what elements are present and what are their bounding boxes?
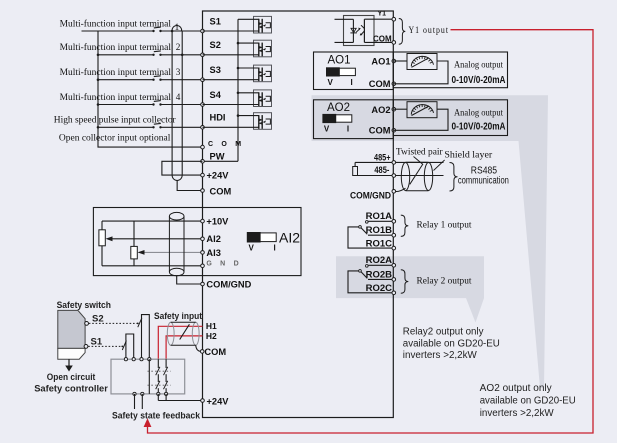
terminal +10V bbox=[201, 219, 205, 223]
svg-text:COM/GND: COM/GND bbox=[350, 191, 391, 201]
potentiometer divider verticals bbox=[101, 221, 103, 266]
svg-text:Multi-function input terminal: Multi-function input terminal bbox=[60, 92, 172, 102]
wire + switch contact for S1 bbox=[82, 30, 154, 32]
terminal COM/GND (485) bbox=[392, 190, 396, 194]
wire + switch contact for S4 bbox=[98, 104, 154, 106]
svg-text:communication: communication bbox=[458, 176, 509, 187]
wire controller to +24V bbox=[158, 394, 202, 401]
terminal COM (AO2) bbox=[392, 129, 396, 133]
wire + switch contact for HDI bbox=[98, 126, 154, 128]
terminal COM (2nd) bbox=[201, 189, 205, 193]
terminal AI2 bbox=[201, 237, 205, 241]
svg-text:485-: 485- bbox=[374, 165, 389, 176]
svg-text:Analog output: Analog output bbox=[454, 109, 503, 119]
terminal RO1C bbox=[392, 246, 396, 250]
terminal COM (digital) bbox=[201, 145, 205, 149]
terminal S1 bbox=[201, 29, 205, 33]
svg-text:Y1 output: Y1 output bbox=[409, 26, 450, 36]
optocoupler S1 bbox=[203, 16, 272, 33]
terminal AO2 bbox=[392, 107, 396, 111]
svg-text:PW: PW bbox=[210, 152, 225, 162]
contact arm S2 bbox=[137, 323, 139, 325]
shield capsule RS485 bbox=[401, 162, 432, 191]
pot rail +10V wire bbox=[102, 220, 203, 222]
terminal COM (safety) bbox=[200, 350, 204, 354]
wire AO2 to meter bbox=[394, 108, 407, 110]
svg-text:S1: S1 bbox=[91, 336, 103, 347]
svg-text:High speed pulse input collect: High speed pulse input collector bbox=[54, 115, 176, 125]
junction opto bus S4 bbox=[237, 92, 240, 95]
svg-text:COM: COM bbox=[369, 79, 391, 89]
terminal HDI bbox=[201, 126, 205, 130]
svg-text:Open circuit: Open circuit bbox=[47, 372, 96, 383]
potentiometer P1 bbox=[99, 230, 105, 246]
terminal 485- bbox=[392, 174, 396, 178]
V/I switch AI2 bbox=[260, 233, 276, 242]
svg-text:Y1: Y1 bbox=[378, 11, 387, 18]
svg-text:AO2 output only: AO2 output only bbox=[480, 383, 552, 394]
terminal S2 (switch) bbox=[85, 322, 89, 326]
wire loop S1 to controller bbox=[126, 334, 134, 359]
terminal S3 bbox=[201, 78, 205, 82]
svg-text:4: 4 bbox=[176, 92, 181, 102]
svg-text:AI3: AI3 bbox=[206, 248, 220, 258]
terminal +24V (safety) bbox=[201, 399, 205, 403]
svg-text:Safety input: Safety input bbox=[154, 311, 203, 322]
svg-text:COM/GND: COM/GND bbox=[206, 280, 251, 290]
terminal GND bbox=[201, 264, 205, 268]
terminal S2 bbox=[201, 53, 205, 57]
svg-text:COM: COM bbox=[369, 126, 391, 136]
svg-text:Open collector input optional: Open collector input optional bbox=[59, 133, 171, 143]
terminal AO1 bbox=[392, 59, 396, 63]
svg-text:Analog output: Analog output bbox=[454, 60, 503, 70]
wiper arrow AI3 bbox=[138, 250, 145, 255]
optocoupler S4 bbox=[203, 90, 272, 107]
svg-text:S1: S1 bbox=[210, 16, 221, 26]
svg-text:AO1: AO1 bbox=[327, 54, 350, 66]
junction opto bus HDI bbox=[237, 114, 240, 117]
svg-text:RO2C: RO2C bbox=[366, 283, 393, 294]
analog output box AO1 bbox=[393, 52, 507, 88]
terminal RO2A bbox=[392, 264, 396, 268]
svg-text:COM: COM bbox=[210, 186, 232, 196]
svg-text:G N D: G N D bbox=[206, 260, 241, 267]
controller contacts bbox=[157, 359, 159, 368]
wire COM of opto bbox=[364, 41, 393, 43]
svg-text:+24V: +24V bbox=[207, 171, 230, 181]
shield capsule analog input bbox=[169, 212, 184, 275]
wire H1 (red) bbox=[158, 326, 202, 359]
svg-text:AI2: AI2 bbox=[279, 229, 300, 245]
svg-text:H1: H1 bbox=[206, 321, 217, 331]
terminal RO2B bbox=[392, 278, 396, 282]
wire 485- bbox=[355, 175, 443, 177]
svg-text:0-10V/0-20mA: 0-10V/0-20mA bbox=[452, 75, 506, 86]
svg-text:0-10V/0-20mA: 0-10V/0-20mA bbox=[452, 121, 506, 132]
svg-text:S4: S4 bbox=[210, 90, 222, 100]
terminal RO1B bbox=[392, 233, 396, 237]
svg-text:RO1B: RO1B bbox=[366, 225, 393, 236]
wire 485+ bbox=[355, 161, 443, 163]
svg-text:2: 2 bbox=[176, 42, 181, 52]
svg-text:Safety switch: Safety switch bbox=[57, 300, 112, 311]
wire meter to COM (AO1) bbox=[394, 61, 448, 84]
safety switch body bbox=[58, 310, 85, 359]
svg-text:AO2: AO2 bbox=[371, 105, 390, 115]
shield capsule safety input bbox=[167, 322, 199, 345]
pot rail GND wire bbox=[102, 265, 203, 267]
wiper arrow AI2 bbox=[106, 236, 113, 241]
svg-text:S3: S3 bbox=[210, 65, 221, 75]
wire shield to COM/GND bbox=[177, 276, 203, 284]
svg-text:V: V bbox=[328, 78, 334, 87]
leader shield layer bbox=[434, 160, 445, 171]
optocoupler S2 bbox=[203, 40, 272, 57]
wire Y1 to terminal bbox=[364, 18, 393, 20]
wire meter to COM (AO2) bbox=[394, 109, 448, 130]
wire AO1 to meter bbox=[394, 60, 407, 62]
junction opto bus S3 bbox=[237, 67, 240, 70]
controller terminals bottom bbox=[133, 392, 136, 395]
svg-text:RO1C: RO1C bbox=[366, 238, 393, 249]
svg-text:Relay 1 output: Relay 1 output bbox=[417, 220, 473, 230]
contact arm S1 bbox=[121, 346, 123, 348]
svg-text:HDI: HDI bbox=[210, 113, 226, 123]
terminal 485+ bbox=[392, 161, 396, 165]
svg-text:AI2: AI2 bbox=[206, 234, 220, 244]
terminal S4 bbox=[201, 103, 205, 107]
svg-text:+10V: +10V bbox=[206, 217, 229, 227]
terminal S1 (switch) bbox=[84, 345, 88, 349]
controller terminals top bbox=[124, 358, 127, 361]
AO1 selector box bbox=[314, 52, 394, 90]
svg-text:Multi-function input terminal: Multi-function input terminal bbox=[60, 67, 172, 77]
brace relay 2 output bbox=[401, 270, 409, 293]
meter M2 bbox=[407, 102, 437, 118]
wire H2 (red) bbox=[166, 336, 202, 359]
svg-text:C O M: C O M bbox=[208, 141, 244, 148]
terminal RO1A bbox=[392, 220, 396, 224]
svg-text:Twisted pair: Twisted pair bbox=[396, 147, 443, 157]
junction opto bus S2 bbox=[237, 42, 240, 45]
svg-text:I: I bbox=[347, 124, 349, 133]
svg-text:AO2: AO2 bbox=[327, 102, 350, 114]
svg-text:inverters >2,2kW: inverters >2,2kW bbox=[480, 408, 555, 419]
svg-text:Relay 2 output: Relay 2 output bbox=[417, 275, 473, 285]
svg-text:V: V bbox=[249, 243, 255, 252]
svg-text:1: 1 bbox=[175, 22, 180, 32]
dotted wire S1 bbox=[88, 345, 122, 347]
opto bus vertical wire bbox=[237, 19, 239, 161]
svg-text:Multi-function input terminal: Multi-function input terminal bbox=[60, 18, 172, 28]
terminal +24V bbox=[201, 173, 205, 177]
svg-text:available on GD20-EU: available on GD20-EU bbox=[403, 338, 500, 349]
brace RS485 bbox=[450, 163, 458, 192]
dotted wire S2 bbox=[89, 322, 138, 324]
potentiometer P2 bbox=[131, 246, 138, 259]
V/I switch AO1 bbox=[339, 68, 355, 75]
svg-text:RO1A: RO1A bbox=[366, 211, 393, 222]
safety state feedback stubs bbox=[134, 394, 136, 409]
leader twisted pair bbox=[414, 157, 424, 165]
AO2 selector box bbox=[314, 100, 394, 139]
wire + switch contact for S3 bbox=[98, 79, 154, 81]
controller internal wire bbox=[148, 359, 150, 394]
svg-text:I: I bbox=[274, 243, 276, 252]
external wire A from input 1 to +24V bbox=[171, 31, 173, 175]
svg-text:RO2A: RO2A bbox=[366, 255, 393, 266]
svg-text:available on GD20-EU: available on GD20-EU bbox=[480, 396, 576, 407]
svg-text:S2: S2 bbox=[210, 40, 221, 50]
red wire from Y1 output to safety feedback bbox=[148, 30, 594, 433]
svg-text:Shield layer: Shield layer bbox=[444, 150, 492, 160]
wire COM/GND to shield bbox=[394, 188, 406, 191]
external wire B from input 2 bbox=[181, 31, 183, 175]
svg-text:V: V bbox=[324, 124, 330, 133]
V/I switch AO2 bbox=[335, 115, 351, 122]
analog input box bbox=[93, 208, 301, 276]
main inverter block outline bbox=[203, 11, 394, 418]
contact coupling dashes bbox=[148, 370, 171, 372]
terminal PW + internal wire to opto bus bbox=[203, 160, 239, 162]
svg-text:S2: S2 bbox=[92, 313, 104, 324]
brace Y1 output bbox=[399, 19, 406, 45]
svg-text:Safety controller: Safety controller bbox=[34, 384, 108, 395]
terminal Y1 bbox=[392, 17, 396, 21]
terminal COM/GND (analog) bbox=[201, 282, 205, 286]
optocoupler HDI bbox=[203, 113, 272, 130]
svg-text:RO2B: RO2B bbox=[366, 269, 393, 280]
svg-text:inverters >2,2kW: inverters >2,2kW bbox=[403, 350, 478, 361]
meter M1 bbox=[407, 54, 437, 70]
terminal COM (AO1) bbox=[392, 82, 396, 86]
svg-text:Multi-function input terminal: Multi-function input terminal bbox=[60, 42, 172, 52]
svg-text:Safety state feedback: Safety state feedback bbox=[112, 410, 201, 421]
svg-text:I: I bbox=[351, 78, 353, 87]
svg-text:H2: H2 bbox=[206, 331, 217, 341]
terminating resistor bbox=[353, 167, 358, 176]
analog output box AO2 bbox=[393, 100, 507, 136]
relay contact group 2 bbox=[348, 265, 393, 293]
svg-text:AO1: AO1 bbox=[371, 57, 390, 67]
grey highlight band AO2 with down arrow callout bbox=[312, 95, 549, 388]
merge arc of wires A,B below +24V to COM bbox=[172, 175, 182, 180]
terminal COM (Y1) bbox=[392, 41, 396, 45]
wire shield to COM (safety) bbox=[196, 345, 201, 351]
grey highlight band Relay 2 with down arrow callout bbox=[336, 256, 484, 322]
svg-text:+24V: +24V bbox=[207, 396, 230, 406]
optocoupler S3 bbox=[203, 65, 272, 82]
svg-text:485+: 485+ bbox=[374, 152, 391, 163]
terminal RO2C bbox=[392, 291, 396, 295]
arrow to open circuit bbox=[68, 359, 70, 366]
wire + switch contact for S2 bbox=[98, 54, 154, 56]
safety controller box bbox=[111, 359, 185, 394]
circled 1 on terminal 1 label bbox=[172, 26, 182, 31]
opto-transistor Y1 output U-Y1 bbox=[335, 16, 375, 46]
svg-text:3: 3 bbox=[176, 67, 181, 77]
PW to +24V jumper bbox=[162, 161, 203, 175]
svg-text:Relay2 output only: Relay2 output only bbox=[403, 327, 484, 338]
wire loop S2 to controller bbox=[142, 315, 150, 360]
left common bus wire to COM bbox=[98, 31, 203, 147]
relay contact group 1 bbox=[348, 221, 393, 249]
brace relay 1 output bbox=[401, 215, 409, 236]
svg-text:COM: COM bbox=[204, 347, 226, 357]
terminal AI3 bbox=[201, 251, 205, 255]
